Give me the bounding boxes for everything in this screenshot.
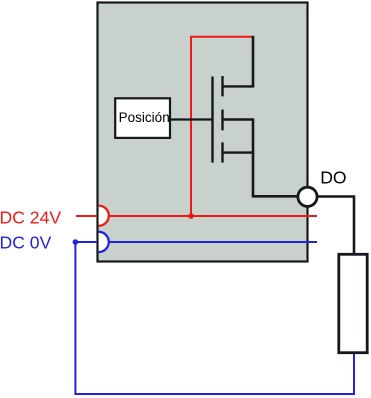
transistor Q1 gate bar [211, 77, 213, 163]
module box (PLC output module) [98, 3, 308, 262]
wire: black drain drop from red corner [252, 36, 255, 87]
resistor load R1 [339, 254, 367, 352]
wire: red branch up to transistor drain [191, 37, 252, 216]
wire: blue return bottom loop [75, 242, 354, 394]
svg-text:DC 0V: DC 0V [0, 233, 52, 253]
svg-text:DO: DO [320, 168, 346, 188]
Posición block [115, 98, 170, 138]
transistor Q1 channel segment bottom [221, 142, 223, 162]
wire: blue DC0V bus left segment [75, 241, 97, 243]
wire: red DC24V bus inside module [109, 215, 317, 217]
transistor Q1 channel segment middle [221, 110, 223, 131]
svg-text:Posición: Posición [119, 110, 170, 125]
wire: red DC24V bus left segment [76, 215, 97, 217]
wire: source drop to output [253, 120, 299, 197]
wire: gate lead from Posición box [170, 118, 213, 120]
wire: blue DC0V bus inside module [109, 241, 317, 243]
terminal: blue 0V entry half-circle on module edge [99, 232, 109, 252]
wire: source connection horizontal [223, 151, 255, 153]
transistor Q1 channel segment top [221, 76, 223, 96]
junction dot on blue bus [73, 239, 79, 245]
wire: DO to load [317, 197, 354, 255]
svg-text:DC 24V: DC 24V [0, 207, 61, 227]
wire: middle connection horizontal [223, 118, 255, 120]
terminal: red 24V entry half-circle on module edge [99, 206, 109, 226]
node DO output terminal circle [298, 187, 317, 206]
junction dot on red bus [188, 213, 194, 219]
(arc stroke below) [99, 206, 109, 226]
wire: drain connection horizontal [223, 85, 255, 87]
